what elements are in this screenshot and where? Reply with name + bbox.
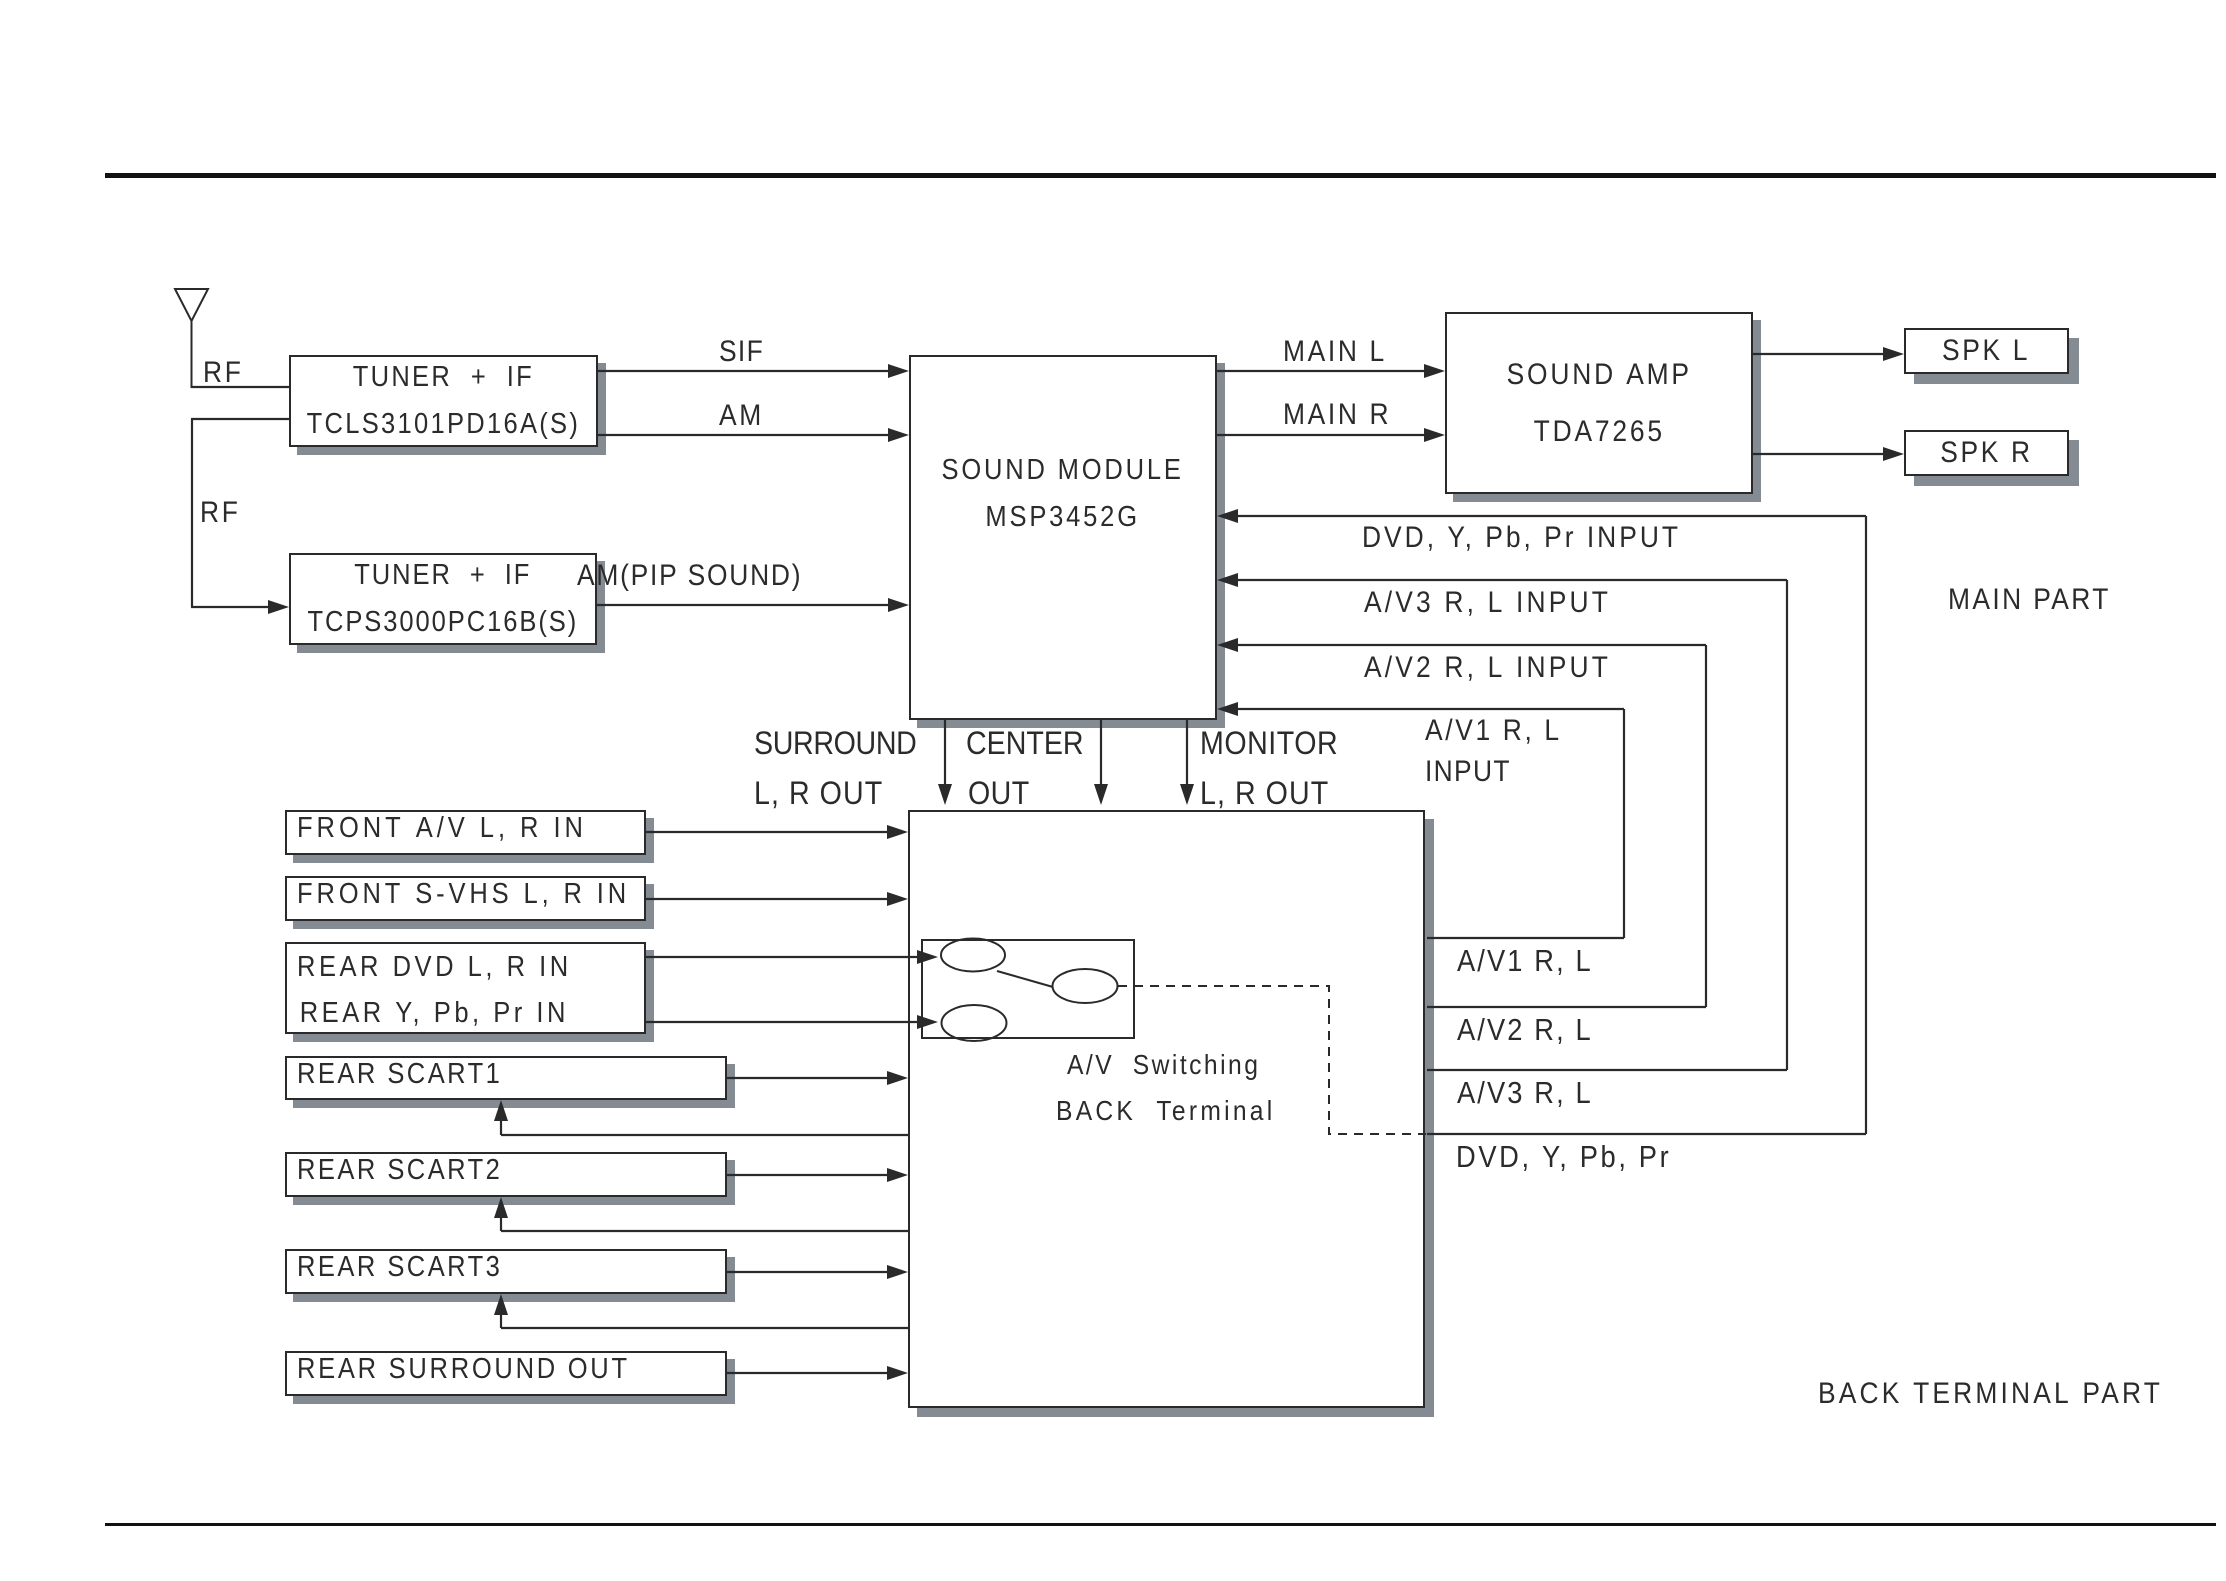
wire: AM tuner1 to sound module xyxy=(598,434,890,436)
label RF (to tuner2) xyxy=(200,497,240,529)
block: REAR DVD L,R IN / REAR Y,Pb,Pr IN xyxy=(285,942,646,1034)
wire: A/V2 vertical xyxy=(1705,645,1707,1007)
wire: RF vertical down xyxy=(191,419,193,607)
label MAIN R xyxy=(1283,399,1391,431)
block: SOUND MODULE MSP3452G xyxy=(909,355,1217,720)
wire: return to REAR SCART2 vertical xyxy=(500,1216,502,1231)
wire: A/V3 row to back terminal xyxy=(1427,1069,1787,1071)
wire: A/V3 input horizontal xyxy=(1238,579,1787,581)
wire: CENTER OUT down xyxy=(1100,720,1102,786)
arrowhead CENTER OUT xyxy=(1094,784,1108,805)
label BACK Terminal xyxy=(1056,1096,1275,1126)
wire: A/V3 vertical xyxy=(1786,580,1788,1070)
arrowhead SIF xyxy=(888,364,909,378)
wire: MONITOR L,R OUT down xyxy=(1186,720,1188,786)
arrowhead REAR SURROUND OUT xyxy=(887,1366,908,1380)
wire: REAR SCART1 to back terminal xyxy=(727,1077,890,1079)
wire: return to REAR SCART1 vertical xyxy=(500,1119,502,1135)
label L, R OUT (surround) xyxy=(754,776,883,811)
block: A/V Switching BACK Terminal xyxy=(908,810,1425,1408)
wire: A/V2 row to back terminal xyxy=(1427,1006,1706,1008)
wire: AM(PIP SOUND) tuner2 to sound module xyxy=(597,604,890,606)
arrowhead REAR SCART3 out xyxy=(887,1265,908,1279)
label A/V Switching xyxy=(1067,1050,1260,1080)
arrowhead MONITOR OUT xyxy=(1180,784,1194,805)
arrowhead REAR SCART2 out xyxy=(887,1168,908,1182)
wire: DVD,Y,Pb,Pr row to back terminal xyxy=(1427,1133,1866,1135)
arrowhead SPK R xyxy=(1883,447,1904,461)
label DVD, Y, Pb, Pr INPUT xyxy=(1362,522,1681,554)
label AM xyxy=(719,400,764,432)
block: SPK R xyxy=(1904,430,2069,476)
arrowhead into tuner2 xyxy=(268,600,289,614)
label A/V1 R, L (row) xyxy=(1457,944,1593,977)
label MONITOR xyxy=(1200,726,1338,761)
label A/V3 R, L (row) xyxy=(1457,1076,1593,1109)
wire: FRONT A/V to back terminal xyxy=(646,831,890,833)
wire: DVD,Y,Pb,Pr vertical xyxy=(1865,516,1867,1134)
block: REAR SCART2 xyxy=(285,1152,727,1197)
arrowhead SPK L xyxy=(1883,347,1904,361)
arrowhead into REAR SCART3 xyxy=(494,1294,508,1315)
label OUT (center) xyxy=(968,776,1030,811)
wire: FRONT S-VHS to back terminal xyxy=(646,898,890,900)
block: REAR SCART1 xyxy=(285,1056,727,1100)
label CENTER xyxy=(966,726,1084,761)
wire: RF into tuner2 xyxy=(191,606,270,608)
block: REAR SCART3 xyxy=(285,1249,727,1294)
label MAIN PART xyxy=(1948,584,2111,616)
label A/V2 R, L (row) xyxy=(1457,1013,1593,1046)
arrowhead MAIN R xyxy=(1424,428,1445,442)
wire: A/V2 input horizontal xyxy=(1238,644,1706,646)
arrowhead FRONT A/V xyxy=(887,825,908,839)
wire: REAR SURROUND OUT to back terminal xyxy=(727,1372,890,1374)
arrowhead AM(PIP SOUND) xyxy=(888,598,909,612)
block: FRONT S-VHS L, R IN xyxy=(285,876,646,921)
dashed net: switch common to DVD row xyxy=(1118,986,1426,1134)
wire: tuner1 to RF junction xyxy=(191,418,289,420)
label A/V1 R, L INPUT (line1) xyxy=(1425,715,1562,747)
arrowhead into REAR SCART2 xyxy=(494,1197,508,1218)
wire: return to REAR SCART3 vertical xyxy=(500,1313,502,1328)
wire: REAR Y,Pb,Pr to switch xyxy=(646,1021,918,1023)
wire: A/V1 vertical xyxy=(1623,709,1625,938)
wire: REAR DVD to switch xyxy=(646,956,918,958)
arrowhead AM xyxy=(888,428,909,442)
label A/V2 R, L INPUT xyxy=(1364,652,1611,684)
label AM(PIP SOUND) xyxy=(577,560,802,592)
wire: A/V1 input horizontal xyxy=(1238,708,1624,710)
label A/V3 R, L INPUT xyxy=(1364,587,1611,619)
arrowhead SURROUND OUT xyxy=(938,784,952,805)
antenna symbol xyxy=(175,289,208,388)
wire: antenna RF to tuner1 xyxy=(191,386,289,388)
block: SPK L xyxy=(1904,328,2069,374)
label A/V1 R, L INPUT (line2) xyxy=(1425,756,1511,788)
label RF (antenna) xyxy=(203,357,243,389)
wire: return to REAR SCART2 horizontal xyxy=(501,1230,908,1232)
label DVD, Y, Pb, Pr (row) xyxy=(1456,1140,1671,1173)
arrowhead A/V3 input xyxy=(1217,573,1238,587)
wire: return to REAR SCART1 horizontal xyxy=(501,1134,908,1136)
block: SOUND AMP TDA7265 xyxy=(1445,312,1753,494)
arrowhead REAR Y,Pb,Pr xyxy=(917,1015,938,1029)
wire: sound amp to SPK R xyxy=(1753,453,1885,455)
block: TUNER + IF TCLS3101PD16A(S) xyxy=(289,355,598,447)
label MAIN L xyxy=(1283,336,1387,368)
label BACK TERMINAL PART xyxy=(1818,1378,2163,1410)
wire: SURROUND L,R OUT down xyxy=(944,720,946,786)
switch contact ellipse (common) xyxy=(1053,969,1118,1003)
wire: return to REAR SCART3 horizontal xyxy=(501,1327,908,1329)
A/V switching sub-box xyxy=(922,940,1134,1038)
block: REAR SURROUND OUT xyxy=(285,1351,727,1396)
arrowhead MAIN L xyxy=(1424,364,1445,378)
wire: REAR SCART3 to back terminal xyxy=(727,1271,890,1273)
switch contact ellipse (REAR DVD) xyxy=(941,939,1005,972)
top rule xyxy=(105,173,2216,178)
label L, R OUT (monitor) xyxy=(1200,776,1329,811)
arrowhead DVD input xyxy=(1217,509,1238,523)
block: FRONT A/V L, R IN xyxy=(285,810,646,855)
wire: MAIN R to sound amp xyxy=(1217,434,1426,436)
wire: SIF tuner1 to sound module xyxy=(598,370,890,372)
label SIF xyxy=(719,336,764,368)
arrowhead REAR SCART1 out xyxy=(887,1071,908,1085)
switch contact ellipse (REAR Y,Pb,Pr) xyxy=(942,1005,1007,1041)
arrowhead into REAR SCART1 xyxy=(494,1100,508,1121)
arrowhead A/V2 input xyxy=(1217,638,1238,652)
wire: REAR SCART2 to back terminal xyxy=(727,1174,890,1176)
wire: DVD,Y,Pb,Pr input horizontal xyxy=(1238,515,1866,517)
switch wiper line xyxy=(997,971,1053,987)
wire: sound amp to SPK L xyxy=(1753,353,1885,355)
arrowhead FRONT S-VHS xyxy=(887,892,908,906)
label SURROUND xyxy=(754,726,916,761)
bottom rule xyxy=(105,1523,2216,1526)
arrowhead A/V1 input xyxy=(1217,702,1238,716)
arrowhead REAR DVD xyxy=(917,950,938,964)
wire: A/V1 row to back terminal xyxy=(1427,937,1624,939)
block: TUNER + IF TCPS3000PC16B(S) xyxy=(289,553,597,645)
wire: MAIN L to sound amp xyxy=(1217,370,1426,372)
